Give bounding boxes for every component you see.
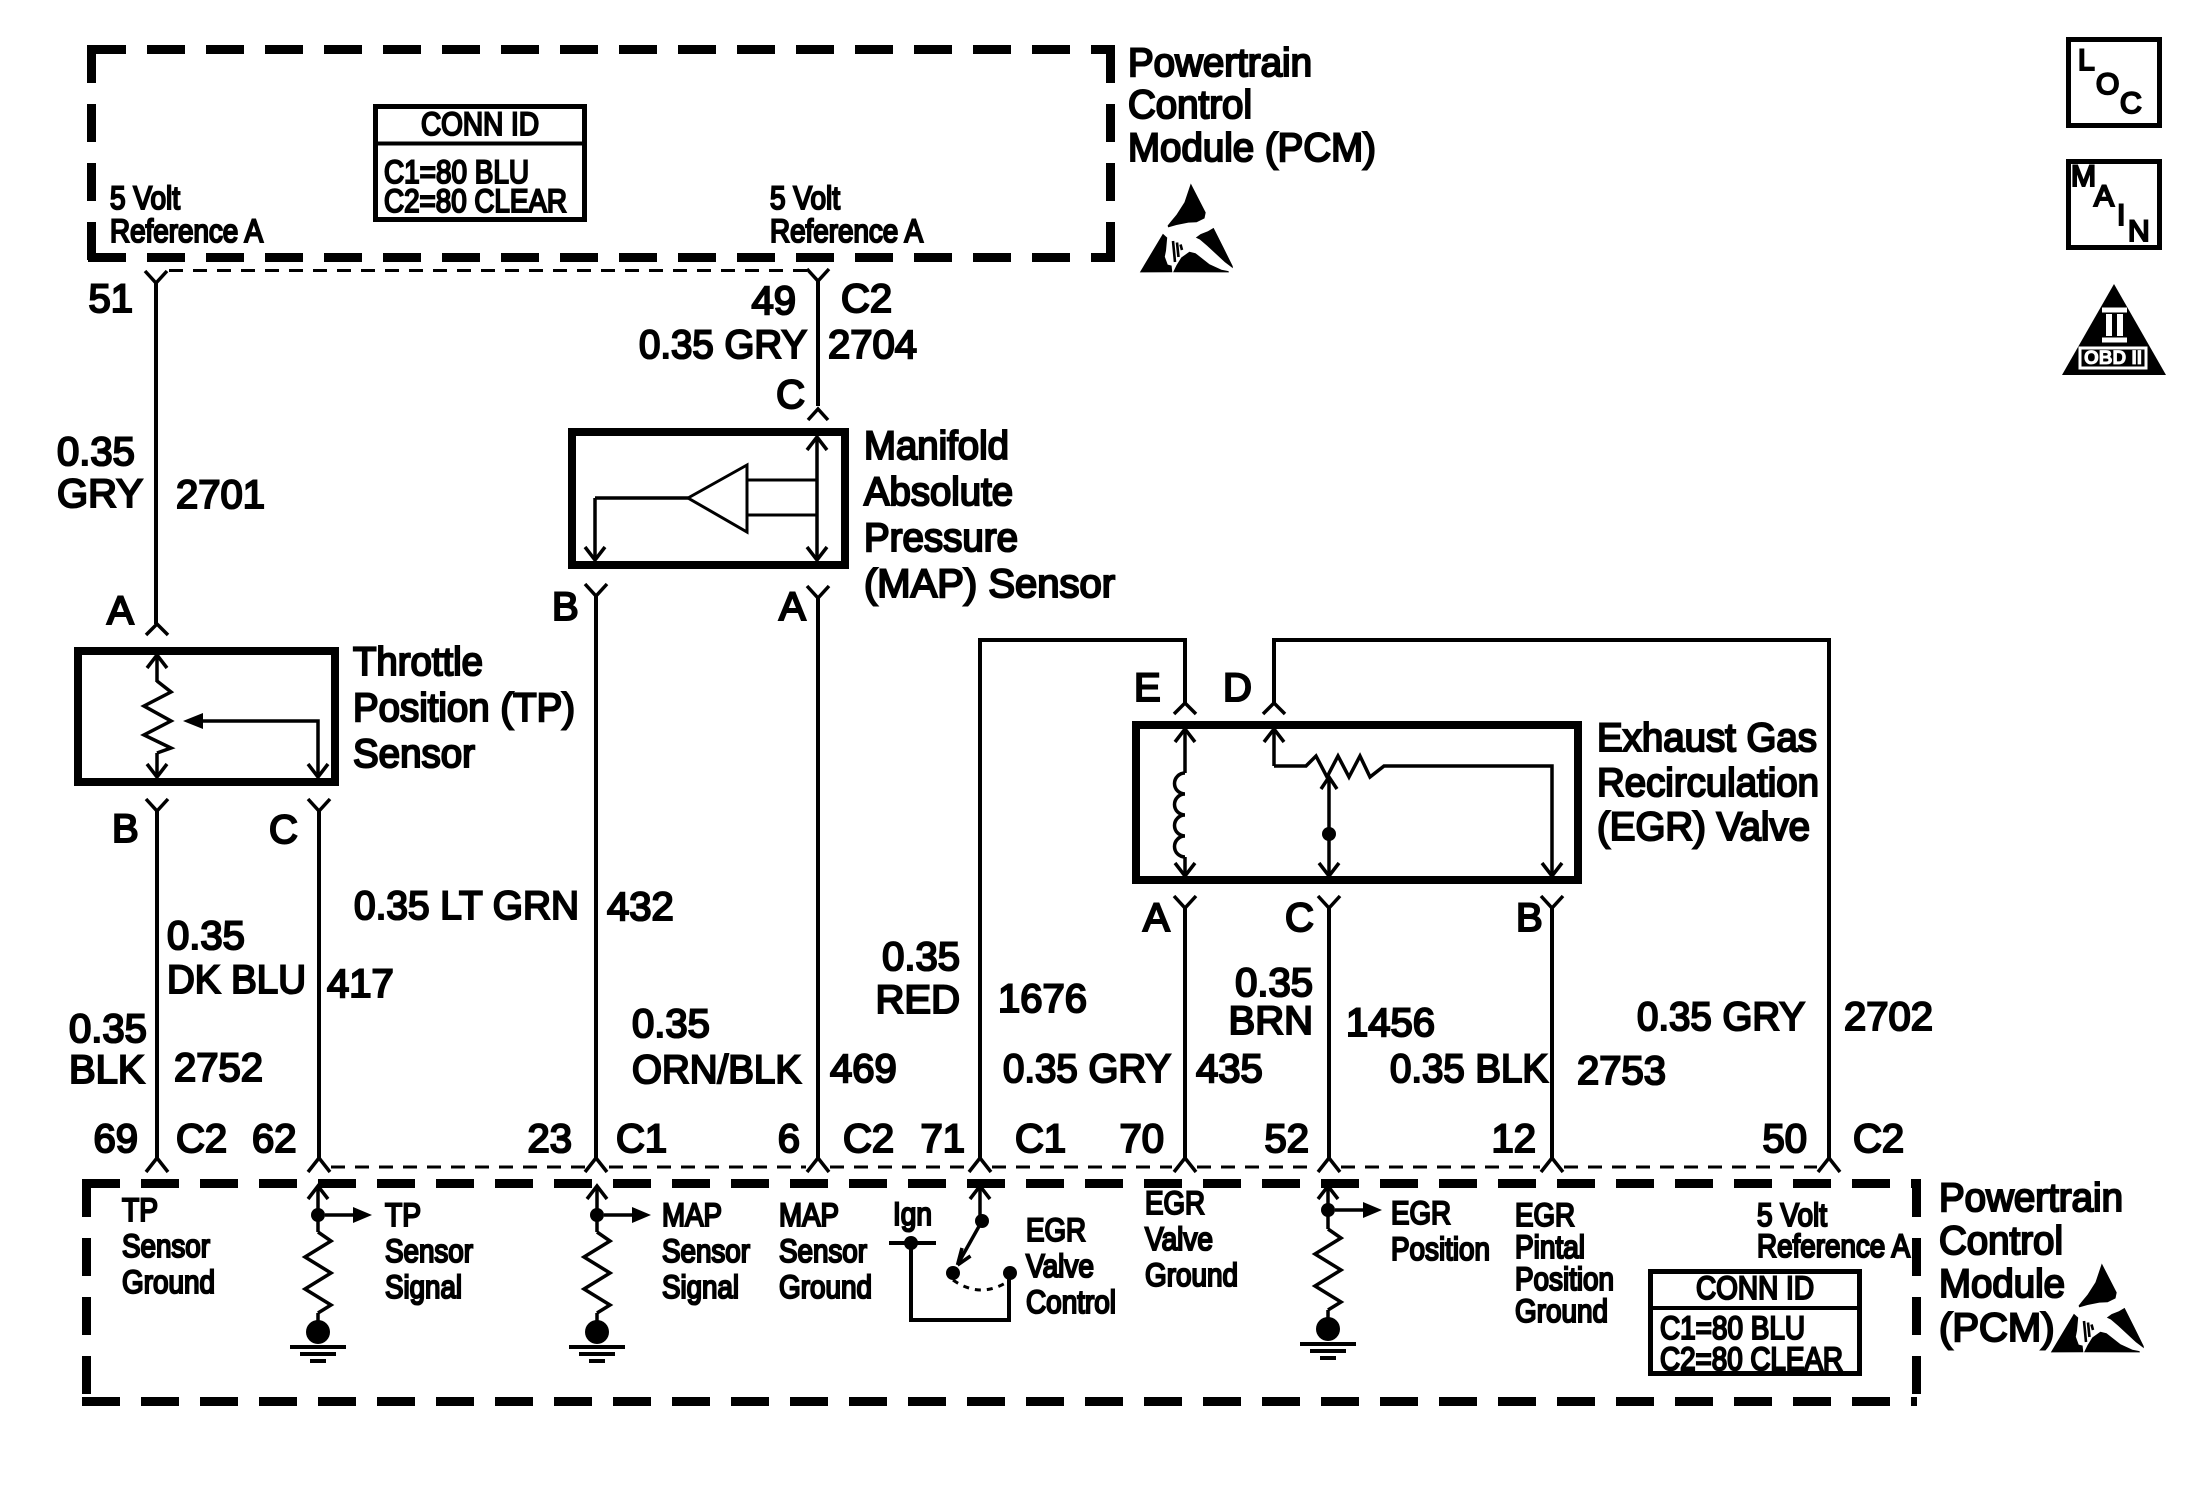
svg-text:N: N bbox=[2128, 215, 2150, 248]
svg-text:Pintal: Pintal bbox=[1515, 1229, 1585, 1265]
MAP internal amplifier triangle bbox=[688, 465, 747, 532]
svg-text:Sensor: Sensor bbox=[353, 732, 475, 776]
svg-text:2702: 2702 bbox=[1844, 995, 1933, 1039]
TP sensor box bbox=[78, 651, 335, 782]
svg-text:Ground: Ground bbox=[1145, 1257, 1238, 1293]
svg-text:Sensor: Sensor bbox=[122, 1228, 210, 1264]
TP potentiometer resistor with arrows bbox=[144, 655, 171, 777]
svg-text:A: A bbox=[1143, 896, 1170, 940]
svg-text:Exhaust Gas: Exhaust Gas bbox=[1597, 716, 1817, 760]
node: TP Sensor Ground bbox=[122, 1192, 215, 1300]
svg-text:Manifold: Manifold bbox=[864, 424, 1009, 468]
ground (TP signal) bbox=[290, 1320, 346, 1361]
ground (MAP signal) bbox=[569, 1320, 625, 1361]
svg-text:BLK: BLK bbox=[69, 1048, 145, 1092]
PCM bottom dashed box bbox=[82, 1179, 1917, 1406]
CONN ID table (bottom) bbox=[1650, 1270, 1860, 1377]
label: 0.35 RED bbox=[876, 935, 960, 1022]
connector line (thin dashed, below top PCM) bbox=[169, 269, 807, 272]
svg-text:0.35 GRY: 0.35 GRY bbox=[639, 323, 807, 367]
svg-text:B: B bbox=[1516, 896, 1543, 940]
svg-text:EGR: EGR bbox=[1145, 1185, 1205, 1221]
svg-text:D: D bbox=[1223, 666, 1252, 710]
svg-text:Reference A: Reference A bbox=[110, 213, 264, 249]
svg-text:C: C bbox=[1285, 896, 1314, 940]
MAP internal output wire with arrow bbox=[585, 498, 688, 560]
EGR potentiometer wiper bbox=[1319, 777, 1339, 876]
svg-text:Control: Control bbox=[1939, 1219, 2063, 1263]
svg-text:69: 69 bbox=[94, 1117, 139, 1161]
node: EGR Valve Ground bbox=[1145, 1185, 1238, 1293]
svg-text:C2=80 CLEAR: C2=80 CLEAR bbox=[384, 183, 567, 219]
MAIN reference box bbox=[2069, 160, 2160, 248]
switch S1 (EGR valve control driver) bbox=[946, 1186, 1017, 1290]
node: EGR Position bbox=[1391, 1195, 1490, 1267]
node: MAP Sensor Ground bbox=[779, 1197, 872, 1305]
connector line (thin dashed, above bottom PCM) bbox=[331, 1166, 1817, 1169]
svg-text:Signal: Signal bbox=[385, 1269, 462, 1305]
ground (EGR position) bbox=[1300, 1317, 1356, 1358]
svg-text:M: M bbox=[2071, 160, 2096, 193]
wire 2753 (0.35 BLK) bbox=[1550, 908, 1554, 1158]
svg-text:C2: C2 bbox=[176, 1117, 227, 1161]
svg-text:Reference A: Reference A bbox=[770, 213, 924, 249]
svg-text:E: E bbox=[1134, 666, 1161, 710]
svg-text:EGR: EGR bbox=[1026, 1212, 1086, 1248]
svg-text:C2: C2 bbox=[843, 1117, 894, 1161]
pin 69 connector chevron bbox=[146, 1158, 168, 1172]
EGR pin B fork bbox=[1541, 896, 1563, 908]
svg-text:Control: Control bbox=[1026, 1284, 1116, 1320]
wire 2752 (0.35 BLK) bbox=[155, 811, 159, 1158]
MAP amplifier input stubs bbox=[747, 480, 817, 515]
pin 51 connector fork bbox=[145, 271, 167, 283]
svg-text:2704: 2704 bbox=[828, 323, 917, 367]
svg-text:51: 51 bbox=[89, 277, 134, 321]
EGR pin A fork bbox=[1174, 896, 1196, 908]
svg-text:62: 62 bbox=[252, 1117, 297, 1161]
label: 0.35 ORN/BLK bbox=[632, 1002, 801, 1092]
svg-text:MAP: MAP bbox=[662, 1197, 722, 1233]
label: Throttle Position (TP) Sensor bbox=[353, 640, 575, 776]
svg-text:Valve: Valve bbox=[1026, 1248, 1094, 1284]
node: 5 Volt Reference A (right, top PCM) bbox=[770, 180, 924, 249]
svg-text:Ign: Ign bbox=[893, 1196, 932, 1232]
svg-text:Sensor: Sensor bbox=[662, 1233, 750, 1269]
wire 432 (0.35 LT GRN) bbox=[594, 596, 598, 1158]
wire: Ign feed to switch contact bbox=[889, 1236, 1009, 1320]
svg-text:71: 71 bbox=[921, 1117, 966, 1161]
label: 0.35 GRY bbox=[57, 430, 143, 516]
svg-text:C1: C1 bbox=[616, 1117, 667, 1161]
TP wiper arrow bbox=[183, 713, 328, 777]
svg-text:I: I bbox=[2117, 199, 2125, 232]
terminal C chevron (MAP sensor) bbox=[808, 409, 828, 420]
svg-text:(PCM): (PCM) bbox=[1939, 1306, 2055, 1350]
svg-text:C2=80 CLEAR: C2=80 CLEAR bbox=[1660, 1341, 1843, 1377]
PCM top dashed box bbox=[88, 45, 1115, 262]
MAP pin B fork bbox=[585, 584, 607, 596]
svg-text:1676: 1676 bbox=[998, 977, 1087, 1021]
svg-text:2753: 2753 bbox=[1577, 1049, 1666, 1093]
svg-text:5 Volt: 5 Volt bbox=[770, 180, 840, 216]
PCM internal resistor R3 (EGR position) bbox=[1315, 1186, 1382, 1318]
svg-text:0.35: 0.35 bbox=[69, 1007, 147, 1051]
wire 435 (0.35 GRY) bbox=[1183, 908, 1187, 1158]
svg-text:0.35: 0.35 bbox=[57, 430, 135, 474]
svg-text:Module: Module bbox=[1939, 1262, 2065, 1306]
pin 71 connector chevron bbox=[969, 1158, 991, 1172]
label: 0.35 DK BLU bbox=[167, 914, 306, 1002]
svg-text:0.35 GRY: 0.35 GRY bbox=[1637, 995, 1805, 1039]
svg-text:B: B bbox=[112, 807, 139, 851]
svg-text:Position: Position bbox=[1515, 1261, 1614, 1297]
terminal A chevron (TP sensor) bbox=[146, 624, 168, 635]
svg-text:49: 49 bbox=[752, 279, 797, 323]
OBD II symbol bbox=[2062, 284, 2166, 375]
svg-text:DK BLU: DK BLU bbox=[167, 958, 306, 1002]
svg-text:C: C bbox=[776, 373, 805, 417]
svg-text:TP: TP bbox=[122, 1192, 158, 1228]
svg-text:70: 70 bbox=[1120, 1117, 1165, 1161]
pin 62 connector chevron bbox=[308, 1158, 330, 1172]
pin 23 connector chevron bbox=[585, 1158, 607, 1172]
svg-text:EGR: EGR bbox=[1515, 1197, 1575, 1233]
node: EGR Valve Control bbox=[1026, 1212, 1116, 1320]
svg-text:EGR: EGR bbox=[1391, 1195, 1451, 1231]
terminal E chevron (EGR) bbox=[1174, 703, 1196, 714]
svg-text:Powertrain: Powertrain bbox=[1128, 41, 1312, 85]
wire 2702 feed (pin 50 to EGR pin D) bbox=[1274, 640, 1829, 1158]
svg-text:CONN ID: CONN ID bbox=[1696, 1270, 1814, 1306]
svg-text:L: L bbox=[2078, 44, 2095, 77]
svg-text:417: 417 bbox=[327, 962, 394, 1006]
wire 469 (0.35 ORN/BLK) bbox=[816, 598, 820, 1158]
PCM internal resistor R2 (MAP signal pull) bbox=[584, 1186, 651, 1321]
svg-text:50: 50 bbox=[1763, 1117, 1808, 1161]
node: 5 Volt Reference A (left, top PCM) bbox=[110, 180, 264, 249]
svg-text:C: C bbox=[2120, 87, 2142, 120]
TP pin B fork bbox=[146, 799, 168, 811]
svg-text:0.35: 0.35 bbox=[167, 914, 245, 958]
svg-text:RED: RED bbox=[876, 978, 960, 1022]
svg-text:C: C bbox=[269, 808, 298, 852]
ESD warning symbol (bottom PCM) bbox=[2051, 1264, 2144, 1353]
svg-text:GRY: GRY bbox=[57, 472, 143, 516]
EGR valve box bbox=[1136, 725, 1578, 880]
pin 12 connector chevron bbox=[1541, 1158, 1563, 1172]
label: Exhaust Gas Recirculation (EGR) Valve bbox=[1597, 716, 1819, 849]
svg-text:Control: Control bbox=[1128, 83, 1252, 127]
svg-text:(EGR) Valve: (EGR) Valve bbox=[1597, 805, 1810, 849]
MAP sensor box bbox=[572, 432, 845, 565]
svg-text:435: 435 bbox=[1196, 1047, 1263, 1091]
svg-text:Pressure: Pressure bbox=[864, 516, 1018, 560]
wire 417 (0.35 DK BLU) bbox=[317, 811, 321, 1158]
node: EGR Pintal Position Ground bbox=[1515, 1197, 1614, 1329]
wire 2701 (0.35 GRY) bbox=[154, 283, 158, 624]
EGR solenoid coil L1 bbox=[1175, 729, 1196, 876]
svg-text:Signal: Signal bbox=[662, 1269, 739, 1305]
LOC reference box bbox=[2069, 40, 2160, 126]
MAP internal supply wire with arrows bbox=[807, 437, 827, 560]
label: Powertrain Control Module (PCM) (top) bbox=[1128, 41, 1376, 170]
svg-text:6: 6 bbox=[778, 1117, 800, 1161]
svg-text:Powertrain: Powertrain bbox=[1939, 1176, 2123, 1220]
MAP pin A fork bbox=[807, 586, 829, 598]
svg-text:0.35 GRY: 0.35 GRY bbox=[1003, 1047, 1171, 1091]
svg-text:Position: Position bbox=[1391, 1231, 1490, 1267]
svg-text:0.35 BLK: 0.35 BLK bbox=[1390, 1047, 1548, 1091]
svg-text:Ground: Ground bbox=[779, 1269, 872, 1305]
svg-text:A: A bbox=[107, 589, 134, 633]
svg-text:2752: 2752 bbox=[174, 1046, 263, 1090]
label: Manifold Absolute Pressure (MAP) Sensor bbox=[864, 424, 1115, 606]
EGR pin C fork bbox=[1318, 896, 1340, 908]
ESD warning symbol (top PCM) bbox=[1140, 184, 1233, 273]
svg-text:0.35: 0.35 bbox=[882, 935, 960, 979]
pin 49 connector fork bbox=[807, 269, 829, 281]
node: 5 Volt Reference A (bottom PCM) bbox=[1757, 1197, 1911, 1264]
svg-text:0.35 LT GRN: 0.35 LT GRN bbox=[354, 884, 579, 928]
svg-text:Throttle: Throttle bbox=[353, 640, 483, 684]
svg-text:Reference A: Reference A bbox=[1757, 1228, 1911, 1264]
svg-text:432: 432 bbox=[607, 885, 674, 929]
pin 70 connector chevron bbox=[1174, 1158, 1196, 1172]
PCM internal resistor R1 (TP signal pull) bbox=[305, 1186, 372, 1321]
svg-text:Valve: Valve bbox=[1145, 1221, 1213, 1257]
wire 2704 (0.35 GRY) bbox=[816, 281, 820, 406]
svg-text:5 Volt: 5 Volt bbox=[110, 180, 180, 216]
wire 1456 (0.35 BRN) bbox=[1327, 908, 1331, 1158]
svg-text:C2: C2 bbox=[841, 277, 892, 321]
svg-text:A: A bbox=[2094, 180, 2114, 213]
svg-text:B: B bbox=[552, 585, 579, 629]
svg-text:CONN ID: CONN ID bbox=[421, 106, 539, 142]
svg-text:Recirculation: Recirculation bbox=[1597, 761, 1819, 805]
svg-text:1456: 1456 bbox=[1346, 1001, 1435, 1045]
svg-text:A: A bbox=[779, 585, 806, 629]
terminal D chevron (EGR) bbox=[1263, 703, 1285, 714]
svg-text:Module (PCM): Module (PCM) bbox=[1128, 126, 1376, 170]
svg-text:23: 23 bbox=[528, 1117, 573, 1161]
TP pin C fork bbox=[308, 799, 330, 811]
EGR position sense resistor (potentiometer) bbox=[1264, 729, 1562, 876]
svg-text:MAP: MAP bbox=[779, 1197, 839, 1233]
svg-text:BRN: BRN bbox=[1229, 999, 1313, 1043]
svg-text:Ground: Ground bbox=[1515, 1293, 1608, 1329]
wire 1676 feed (pin 71 to EGR pin E) bbox=[980, 640, 1185, 1158]
svg-text:C1: C1 bbox=[1015, 1117, 1066, 1161]
svg-text:Ground: Ground bbox=[122, 1264, 215, 1300]
svg-text:469: 469 bbox=[830, 1047, 897, 1091]
svg-text:Absolute: Absolute bbox=[864, 470, 1013, 514]
svg-text:12: 12 bbox=[1492, 1117, 1537, 1161]
pin 50 connector chevron bbox=[1818, 1158, 1840, 1172]
CONN ID table (top) bbox=[375, 106, 585, 220]
svg-text:Sensor: Sensor bbox=[779, 1233, 867, 1269]
pin 52 connector chevron bbox=[1318, 1158, 1340, 1172]
svg-text:Position (TP): Position (TP) bbox=[353, 686, 575, 730]
label: 0.35 BLK bbox=[69, 1007, 147, 1092]
pin 6 connector chevron bbox=[807, 1158, 829, 1172]
svg-text:2701: 2701 bbox=[176, 473, 265, 517]
svg-text:O: O bbox=[2096, 68, 2119, 101]
label: Powertrain Control Module (PCM) (bottom) bbox=[1939, 1176, 2123, 1350]
svg-text:TP: TP bbox=[385, 1197, 421, 1233]
svg-text:52: 52 bbox=[1265, 1117, 1310, 1161]
node: TP Sensor Signal bbox=[385, 1197, 473, 1305]
svg-text:(MAP) Sensor: (MAP) Sensor bbox=[864, 562, 1115, 606]
svg-text:Sensor: Sensor bbox=[385, 1233, 473, 1269]
svg-text:OBD II: OBD II bbox=[2084, 348, 2142, 369]
svg-text:ORN/BLK: ORN/BLK bbox=[632, 1048, 801, 1092]
pin number labels (bottom PCM) bbox=[94, 1117, 1905, 1161]
node: MAP Sensor Signal bbox=[662, 1197, 750, 1305]
svg-text:C2: C2 bbox=[1853, 1117, 1904, 1161]
svg-text:0.35: 0.35 bbox=[632, 1002, 710, 1046]
label: 0.35 BRN bbox=[1229, 961, 1313, 1043]
